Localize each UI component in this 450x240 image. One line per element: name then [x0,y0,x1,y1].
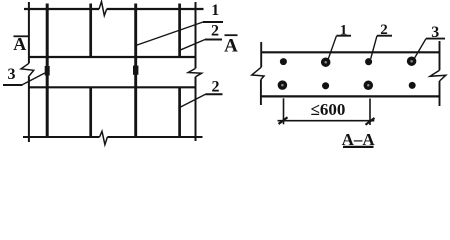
svg-text:2: 2 [380,22,388,38]
hole of ring dot row2 col3 [367,84,370,87]
wall right edge (upper segment) [195,2,197,68]
rebar dot section: small dot row1 col3 [365,58,372,65]
svg-text:2: 2 [211,23,219,40]
leader line of label 1 (plan) [136,22,203,46]
leader line of label 2 (section) [371,36,377,59]
rebar dot section: small dot row1 col1 [280,58,287,65]
svg-text:1: 1 [340,23,348,39]
section mark A overline (right) [225,34,238,36]
wall plan: bottom edge line (right segment) [107,136,202,138]
svg-text:A: A [13,34,26,54]
svg-text:1: 1 [211,2,219,19]
leader underline of label 1 (plan) [203,21,223,23]
section slab left edge (lower segment) [260,80,262,105]
wall left edge (lower segment) [28,77,30,142]
section A-A slab: bottom line [262,95,440,97]
section slab left edge (upper segment) [260,42,262,67]
dimension extension line right [369,99,371,126]
dimension line [278,120,375,122]
rebar ring section: ring dot row2 col1 [278,80,288,90]
break symbol on section right edge [430,70,446,81]
rebar ring section: ring dot row2 col3 [364,81,374,91]
dimension tick right [366,118,375,125]
rebar ring section: ring dot row1 col4 [407,56,417,65]
rebar dot section: small dot row2 col2 [322,82,329,89]
leader underline of label 3 (plan) [3,84,23,86]
vertical rebar B2 (lower segment) [89,87,92,137]
leader line of label 3 (plan) [23,73,45,85]
vertical rebar B4 (lower segment) [178,87,181,137]
underline of section title A-A [343,146,374,148]
wall left edge (upper segment) [28,2,30,63]
rebar ring section: ring dot row1 col2 [321,57,331,66]
leader underline of label 2 lower (plan) [206,93,223,95]
rebar dot section: small dot row2 col4 [409,82,416,89]
break symbol on top edge [99,2,107,16]
dimension tick left [279,117,288,124]
leader line of label 1 (section) [328,36,336,59]
leader underline of label 2 upper (plan) [205,39,222,41]
svg-text:3: 3 [8,66,16,83]
svg-text:2: 2 [212,79,220,96]
joint dash on rebar B3 [133,66,138,75]
leader line of label 2 lower (plan) [180,94,206,107]
vertical rebar B3 [134,4,137,138]
vertical rebar B4 (upper segment) [178,4,181,58]
wall plan: middle joint line 1 [29,56,196,58]
joint dash on rebar B1 [45,66,50,76]
break symbol on bottom edge [100,131,108,144]
hole of ring dot row1 col4 [410,60,413,63]
leader line of label 2 upper (plan) [180,40,205,51]
section slab right edge (lower segment) [439,81,441,106]
wall right edge (lower segment) [195,77,197,141]
break symbol on right edge [188,68,201,76]
leader underline of label 1 (section) [337,35,352,37]
break symbol on section left edge [252,67,264,79]
vertical rebar B2 (upper segment) [89,4,92,58]
hole of ring dot row1 col2 [324,61,327,64]
leader underline of label 2 (section) [377,35,392,37]
leader line of label 3 (section) [414,39,426,59]
svg-text:≤600: ≤600 [311,100,346,119]
wall plan: middle joint line 2 [29,86,196,88]
leader underline of label 3 (section) [426,38,445,40]
break symbol on left edge [21,63,34,77]
vertical rebar B1 [46,4,49,138]
wall plan: top edge line (right segment) [107,8,204,10]
section slab right edge (upper segment) [439,41,441,70]
wall plan: bottom edge line (left segment) [23,136,100,138]
section A-A slab: top line [261,51,440,53]
wall plan: top edge line (left segment) [24,8,99,10]
svg-text:3: 3 [431,24,439,41]
hole of ring dot row2 col1 [281,84,284,87]
dimension extension line left [283,98,285,124]
svg-text:A: A [224,36,238,57]
section mark A overline (left) [14,35,29,37]
